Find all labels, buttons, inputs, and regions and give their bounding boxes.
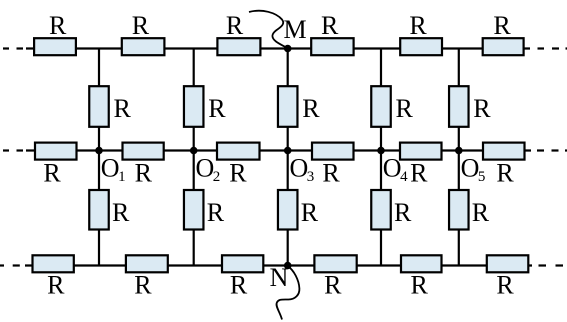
svg-text:R: R xyxy=(322,159,340,188)
svg-text:R: R xyxy=(496,159,514,188)
svg-text:R: R xyxy=(230,271,248,300)
svg-text:R: R xyxy=(135,159,153,188)
svg-text:R: R xyxy=(409,11,427,40)
svg-text:R: R xyxy=(208,94,226,123)
svg-text:R: R xyxy=(302,94,320,123)
svg-text:N: N xyxy=(270,263,289,292)
svg-text:R: R xyxy=(226,11,244,40)
svg-text:R: R xyxy=(472,198,490,227)
svg-text:R: R xyxy=(321,11,339,40)
svg-text:R: R xyxy=(394,198,412,227)
svg-text:R: R xyxy=(496,271,514,300)
svg-text:R: R xyxy=(493,11,511,40)
svg-text:R: R xyxy=(411,271,429,300)
svg-text:M: M xyxy=(283,15,306,44)
svg-text:R: R xyxy=(324,271,342,300)
svg-text:R: R xyxy=(396,94,414,123)
svg-text:R: R xyxy=(207,198,225,227)
svg-text:R: R xyxy=(473,94,491,123)
svg-text:R: R xyxy=(410,159,428,188)
svg-text:R: R xyxy=(229,159,247,188)
svg-text:R: R xyxy=(49,11,67,40)
svg-text:R: R xyxy=(43,159,61,188)
svg-text:R: R xyxy=(134,271,152,300)
svg-text:R: R xyxy=(132,11,150,40)
svg-text:R: R xyxy=(301,198,319,227)
svg-text:R: R xyxy=(47,271,65,300)
svg-text:R: R xyxy=(112,198,130,227)
svg-text:R: R xyxy=(114,94,132,123)
